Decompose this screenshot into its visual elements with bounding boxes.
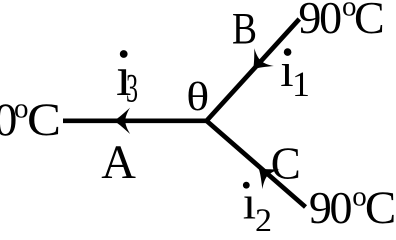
svg-text:9: 9 bbox=[309, 182, 332, 231]
label 90°C (top right temperature) bbox=[298, 0, 384, 43]
wire rod B (junction to top-right 90°C) bbox=[206, 19, 299, 121]
wire rod A (horizontal, junction to 0°C end) bbox=[63, 118, 207, 123]
svg-text:0: 0 bbox=[319, 0, 342, 43]
svg-text:1: 1 bbox=[292, 64, 310, 104]
label 0°C (left end temperature) bbox=[0, 92, 61, 146]
arrow on rod A (heat current i3, pointing left) bbox=[114, 108, 131, 134]
wire rod C (junction to bottom-right 90°C) bbox=[206, 121, 305, 208]
svg-text:3: 3 bbox=[126, 65, 138, 110]
label i3 (heat current in rod A) bbox=[116, 46, 138, 110]
svg-text:0: 0 bbox=[330, 182, 353, 231]
svg-text:θ: θ bbox=[186, 74, 209, 119]
label i1 (heat current in rod B) bbox=[280, 44, 310, 104]
label i2 (heat current in rod C) bbox=[243, 177, 272, 240]
arrow on rod B (heat current i1, pointing down-left toward junction) bbox=[243, 48, 274, 78]
svg-text:A: A bbox=[101, 136, 136, 189]
svg-text:C: C bbox=[271, 139, 301, 189]
svg-text:C: C bbox=[365, 182, 396, 231]
label 90°C (bottom right temperature) bbox=[309, 181, 396, 234]
svg-text:2: 2 bbox=[255, 202, 272, 231]
svg-text:B: B bbox=[232, 4, 257, 53]
svg-text:9: 9 bbox=[298, 0, 321, 43]
arrow on rod C (heat current i2, pointing up-left toward junction) bbox=[250, 158, 280, 189]
svg-text:C: C bbox=[27, 94, 61, 146]
svg-text:C: C bbox=[354, 0, 385, 43]
